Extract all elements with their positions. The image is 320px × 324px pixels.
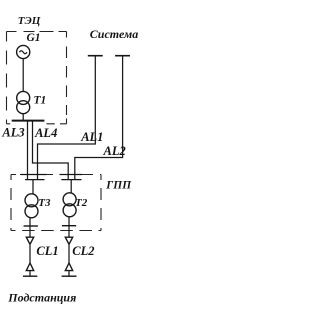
svg-text:T1: T1	[34, 95, 47, 107]
cable CL2 upper wire	[68, 226, 70, 237]
cable CL2	[68, 245, 70, 264]
CL1 bottom termination (up triangle)	[26, 263, 33, 271]
CL2 lower wire	[68, 271, 70, 276]
svg-text:CL1: CL1	[36, 244, 58, 258]
transformer T2	[63, 193, 76, 217]
line AL3 (bus to GPP T3 bus)	[27, 121, 29, 180]
wire bus to T2	[70, 180, 72, 194]
line AL4 (bus to GPP T2 bus)	[33, 121, 69, 180]
svg-text:CL2: CL2	[72, 244, 94, 258]
CL2 substation bar	[62, 275, 77, 277]
svg-text:AL2: AL2	[103, 144, 126, 158]
svg-text:Система: Система	[90, 27, 138, 41]
CL1 lower wire	[29, 271, 31, 276]
wire T3 to LV bar	[29, 217, 31, 226]
line AL2 (system to GPP T2 bus)	[75, 56, 123, 179]
generator G1	[17, 45, 30, 58]
wire T1 to bus	[22, 114, 24, 121]
CL2 top termination (down triangle)	[65, 237, 72, 244]
svg-text:AL1: AL1	[80, 130, 103, 144]
GPP busbar T3	[25, 179, 45, 181]
svg-text:AL3: AL3	[1, 126, 24, 140]
svg-text:G1: G1	[27, 32, 41, 44]
CL2 bottom termination (up triangle)	[65, 263, 72, 271]
T2 LV terminal bar	[62, 225, 76, 227]
svg-text:AL4: AL4	[34, 126, 57, 140]
system terminal bar 1	[88, 55, 103, 57]
svg-text:T3: T3	[38, 197, 51, 209]
svg-text:Подстанция: Подстанция	[7, 291, 76, 305]
wire G1 to T1	[22, 59, 24, 92]
CHP dashed box	[7, 32, 67, 124]
T3 LV terminal bar	[24, 225, 38, 227]
CHP busbar	[12, 120, 45, 122]
cable CL1 upper wire	[29, 226, 31, 237]
system terminal bar 2	[115, 55, 130, 57]
CL1 substation bar	[23, 275, 37, 277]
svg-text:ТЭЦ: ТЭЦ	[18, 15, 41, 27]
GPP entry bar above T3	[21, 174, 47, 176]
svg-text:ГПП: ГПП	[105, 179, 132, 191]
transformer T1	[17, 91, 30, 113]
wire bus to T3	[32, 180, 34, 195]
wire T2 to LV bar	[68, 216, 70, 225]
svg-text:T2: T2	[75, 197, 88, 209]
transformer T3	[25, 194, 38, 218]
line AL1 (system to GPP T3 bus)	[38, 56, 96, 179]
GPP dashed box	[11, 175, 101, 231]
cable CL1	[29, 245, 31, 264]
GPP entry bar above T2	[60, 174, 83, 176]
CL1 top termination (down triangle)	[26, 237, 33, 244]
GPP busbar T2	[61, 179, 81, 181]
